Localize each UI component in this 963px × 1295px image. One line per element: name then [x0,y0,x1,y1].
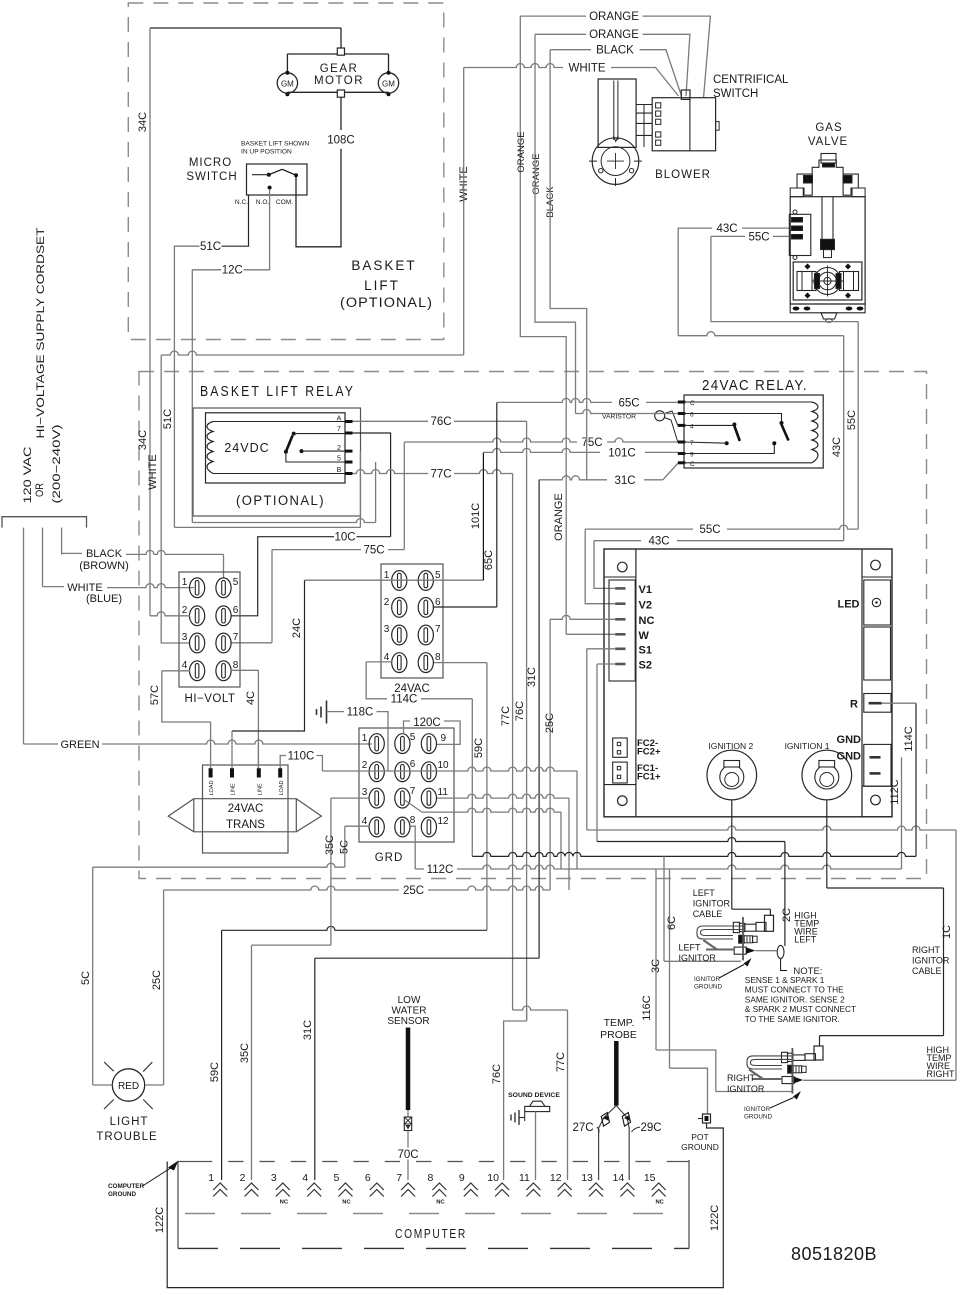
gas valve cross top [797,174,812,195]
gas valve knob [821,154,836,164]
svg-text:R: R [850,699,858,711]
svg-text:65C: 65C [483,550,495,570]
svg-text:122C: 122C [709,1205,721,1231]
svg-text:NC: NC [280,1200,289,1206]
wire 31C from relay bottom pin C [663,464,678,480]
svg-text:NC: NC [342,1200,351,1206]
svg-text:(200−240V): (200−240V) [51,425,63,504]
24VAC relay box [684,395,823,468]
svg-text:110C: 110C [288,751,315,763]
wire S1 from board to 1C sense right ignitor [587,648,615,650]
wire 57C from HI-VOLT pin 4 to transformer [162,670,190,672]
wire 34C vertical [149,28,151,616]
svg-text:1C: 1C [941,925,953,939]
wire 76C jog to computer pin 10 [504,1021,527,1180]
svg-text:MOTOR: MOTOR [314,75,364,87]
svg-text:IGNITOR: IGNITOR [693,899,731,909]
wire 35C from GRD pin 3 to computer pin 2 [330,798,332,945]
wire 5C from GRD pin 4 to light trouble lamp [345,825,370,827]
svg-text:7: 7 [410,786,416,797]
svg-text:(BROWN): (BROWN) [79,560,129,572]
svg-text:LEFT: LEFT [693,888,716,898]
HI-VOLT terminal 4 [190,661,205,681]
gear motor GM circle right [378,73,398,93]
wire 59C from 24VAC pin 8 down to computer pin 1 [434,662,487,664]
HI-VOLT terminal 2 [190,606,205,626]
svg-text:27C: 27C [572,1122,593,1134]
svg-text:C: C [690,400,695,407]
svg-text:N.C.: N.C. [235,199,248,206]
board mounting hole bottom left [618,796,628,806]
sound device speaker [525,1106,550,1111]
svg-text:COMPUTER: COMPUTER [395,1227,467,1241]
svg-text:LOAD: LOAD [209,780,215,795]
svg-text:CENTRIFICAL: CENTRIFICAL [713,74,789,86]
svg-text:6: 6 [233,605,239,616]
temp probe split wires [599,1106,617,1180]
wire 59C bus to left [222,926,487,930]
svg-text:59C: 59C [209,1062,221,1082]
svg-text:RED: RED [118,1081,139,1092]
svg-text:77C: 77C [555,1052,567,1072]
basket lift relay inner box [206,413,346,483]
wire WHITE BLUE to HI-VOLT pin 1 [43,586,65,588]
blower flange circle [592,138,639,185]
svg-text:MUST CONNECT TO THE: MUST CONNECT TO THE [745,985,844,995]
wire 108C from gear motor to micro switch COM [340,97,342,130]
svg-text:BASKET LIFT SHOWN: BASKET LIFT SHOWN [241,141,310,148]
gear motor GM circle left [277,73,297,93]
relay pin stubs [345,420,353,423]
svg-text:8: 8 [233,660,239,671]
temp probe bar [614,1041,619,1106]
svg-text:V2: V2 [639,600,652,612]
svg-text:ORANGE: ORANGE [589,11,639,23]
wire ORANGE 2 vertical from blower to 24VAC relay pin 6 [535,34,576,413]
GRD terminal 9 [421,734,436,754]
svg-text:BASKET LIFT RELAY: BASKET LIFT RELAY [200,384,355,400]
wire 101C horizontal to 24VAC relay pin 9 [483,448,600,452]
svg-text:6: 6 [365,1172,371,1184]
GRD terminal 3 [369,788,384,808]
svg-text:5: 5 [410,732,416,743]
wire 114C bus black [472,852,916,856]
transformer box [203,765,289,853]
svg-text:OR: OR [34,483,46,497]
svg-text:1: 1 [362,733,368,744]
svg-text:9: 9 [690,452,694,459]
svg-text:GROUND: GROUND [108,1191,136,1198]
svg-text:LEFT: LEFT [679,943,702,953]
svg-text:LEFT: LEFT [794,935,817,945]
GRD terminal 10 [421,762,436,782]
wire 43C vertical right [843,336,845,541]
board left connector box [609,580,635,681]
board empty cell [864,627,891,680]
right ignitor boot and cable [814,1046,823,1060]
wire 34C hump into HI-VOLT pin 2 [150,612,190,616]
svg-text:122C: 122C [154,1207,166,1233]
svg-text:& SPARK 2 MUST CONNECT: & SPARK 2 MUST CONNECT [745,1004,856,1014]
computer connector box [177,1162,179,1249]
svg-text:S1: S1 [639,645,652,657]
svg-text:112C: 112C [427,864,454,876]
low water sensor probe bar [406,1028,411,1111]
svg-text:6: 6 [435,597,441,608]
gas valve base [790,304,865,313]
svg-text:MICRO: MICRO [189,157,232,169]
svg-text:43C: 43C [648,536,669,548]
wire 76C long vertical [526,421,528,1021]
24VAC terminal 4 [392,653,407,673]
GRD terminal 2 [369,762,384,782]
board right column [861,549,863,817]
wire BLACK vertical from blower to 31C junction [550,50,587,480]
24VAC relay internal wires [684,401,812,403]
wire sound device to computer pin 11 [535,1112,537,1180]
svg-text:12: 12 [438,816,450,827]
wire 24C vertical [232,580,305,731]
wire 55C to board V2 [727,525,858,529]
svg-text:GREEN: GREEN [60,739,99,751]
svg-text:W: W [639,630,650,642]
GRD terminal 8 [395,817,410,837]
wire 116C to right ignitor ground [655,869,657,1050]
GRD terminal block box [359,728,454,842]
GRD terminal 6 [395,762,410,782]
svg-text:S2: S2 [639,660,652,672]
svg-text:5: 5 [233,577,239,588]
svg-text:108C: 108C [327,135,355,147]
wire 110C from transformer LOAD [280,756,286,769]
light trouble lamp RED [112,1069,144,1101]
wire R pin to 114C [882,702,917,704]
wire 120C bracket to GRD pins 5 and 9 [404,721,411,734]
gas valve side feet [790,188,803,197]
svg-text:10: 10 [487,1172,499,1184]
left ignitor spark plug [734,947,746,954]
left ignitor electrode hook [697,926,744,939]
low water sensor connector [407,1110,409,1117]
wire GRD pin 7 diagonal [404,800,422,813]
svg-text:HI−VOLTAGE SUPPLY CORDSET: HI−VOLTAGE SUPPLY CORDSET [35,227,47,438]
svg-text:31C: 31C [526,667,538,687]
relay coil 24VDC [207,422,213,474]
wire 75C upper-left segment and corner [271,549,273,551]
svg-text:7: 7 [396,1172,402,1184]
svg-text:WHITE: WHITE [568,63,605,75]
svg-text:SOUND DEVICE: SOUND DEVICE [508,1092,560,1099]
HI-VOLT terminal 7 [216,633,231,653]
svg-text:HI−VOLT: HI−VOLT [185,693,236,705]
wire 101C riser from 24VAC row to relay pin 9 [482,452,484,580]
svg-text:9: 9 [441,733,447,744]
svg-text:WHITE: WHITE [147,454,159,489]
svg-text:4C: 4C [245,691,257,705]
left ignitor mounting bracket [742,917,744,960]
wire label ORANGE top 1 [520,15,586,17]
wire label WHITE top [464,64,563,68]
gas valve side cylinders [797,272,816,291]
svg-text:POT: POT [691,1132,708,1142]
svg-text:3: 3 [384,624,390,635]
wire black-brown lead [61,528,63,554]
svg-text:12C: 12C [222,265,243,277]
right ignitor ceramic body [788,1065,794,1073]
svg-text:(OPTIONAL): (OPTIONAL) [236,493,325,508]
svg-text:116C: 116C [641,995,653,1021]
HI-VOLT terminal 3 [190,633,205,653]
svg-text:IGNITOR: IGNITOR [679,953,717,963]
wire 25C bus to lamp [428,886,550,890]
sound device ground symbol [510,1115,512,1121]
wire 77C relay pin B with crossings [353,470,429,474]
svg-text:70C: 70C [397,1149,418,1161]
svg-text:BLACK: BLACK [596,45,634,57]
svg-text:TRANS: TRANS [226,819,265,831]
svg-text:25C: 25C [151,970,163,990]
note leader [781,959,787,971]
24VAC relay contacts [732,423,736,427]
svg-text:IGNITOR: IGNITOR [694,976,721,983]
svg-text:WATER: WATER [392,1006,427,1017]
svg-text:114C: 114C [391,694,418,706]
svg-text:SWITCH: SWITCH [713,88,758,100]
board FC connector upper [613,738,628,757]
wire 51C from micro switch NC [222,195,249,246]
transformer capsule end verticals [193,799,195,832]
right ignitor electrode hook [747,1056,792,1069]
svg-text:2: 2 [337,445,341,452]
svg-text:2: 2 [240,1172,246,1184]
board mounting hole top right [871,560,881,570]
wire 122C from pot ground around bottom [167,1123,723,1288]
svg-text:10: 10 [438,760,450,771]
wire ORANGE to board W pin [566,633,615,635]
24VAC terminal 5 [418,571,433,591]
wire 31C bottom to computer pin 4 [315,957,539,959]
board pin stubs V1 V2 NC W S1 S2 [615,587,625,590]
wire 55C vertical right [857,322,859,529]
24VAC terminal 6 [418,598,433,618]
svg-text:IGNITOR: IGNITOR [744,1106,771,1113]
svg-text:14: 14 [613,1172,625,1184]
svg-text:75C: 75C [363,545,384,557]
board R cell [864,694,891,713]
svg-text:RIGHT: RIGHT [927,1069,956,1079]
GRD terminal 11 [421,788,436,808]
wire 3C to left ignitor ground [663,856,665,961]
svg-text:LINE: LINE [231,783,237,796]
svg-text:BASKET: BASKET [351,258,416,273]
centrifical switch connector tab [681,90,690,99]
svg-text:GRD: GRD [375,852,404,864]
svg-text:65C: 65C [618,398,639,410]
svg-text:29C: 29C [640,1122,661,1134]
GRD terminal 5 [395,734,410,754]
left ignitor ceramic body [739,935,745,943]
svg-text:43C: 43C [716,223,737,235]
wire sense right to 1C [803,1079,956,1081]
svg-text:2: 2 [182,605,188,616]
svg-text:(OPTIONAL): (OPTIONAL) [340,295,433,310]
svg-text:LIGHT: LIGHT [110,1116,149,1128]
temp probe connector diamonds [601,1113,609,1127]
svg-text:LOW: LOW [398,995,421,1006]
svg-text:8051820B: 8051820B [791,1244,877,1264]
svg-text:31C: 31C [302,1020,314,1040]
svg-text:6: 6 [410,759,416,770]
svg-text:2C: 2C [781,908,793,922]
svg-text:BLOWER: BLOWER [655,169,711,181]
svg-text:IGNITOR: IGNITOR [912,956,950,966]
wire GRD row 2 bus (110C to pins 2 6 10) [322,767,577,771]
svg-text:GND: GND [837,751,862,763]
24VAC terminal 1 [392,571,407,591]
wire white-blue lead [42,528,44,587]
wire NC 25C from board NC pin down to lamp [550,615,615,619]
svg-text:120 VAC: 120 VAC [22,446,34,503]
svg-text:3: 3 [271,1172,277,1184]
svg-text:PROBE: PROBE [600,1029,637,1041]
svg-text:ORANGE: ORANGE [531,153,542,194]
svg-text:77C: 77C [500,706,512,726]
svg-text:(BLUE): (BLUE) [86,593,122,605]
svg-text:25C: 25C [403,885,424,897]
svg-text:76C: 76C [514,701,526,721]
wire 34C feed from top-left to gear motor [150,27,341,29]
svg-text:GROUND: GROUND [694,984,722,991]
svg-text:LINE: LINE [257,783,263,796]
svg-text:ORANGE: ORANGE [516,131,527,172]
svg-text:34C: 34C [137,430,149,450]
svg-text:TEMP.: TEMP. [604,1017,635,1029]
svg-text:IN UP POSITION: IN UP POSITION [241,149,292,156]
wire green lead [23,528,25,744]
supply cordset bracket [2,517,87,528]
svg-text:COMPUTER: COMPUTER [108,1183,144,1190]
wire 77C jog to computer pin 12 [513,1006,568,1010]
svg-text:IGNITION 2: IGNITION 2 [708,741,753,751]
transformer lead wires up [210,722,212,768]
wire 75C from HI-VOLT pin 5 area to 24VAC relay pin 7 [272,549,361,551]
wire 55C from gas valve [773,235,789,237]
svg-text:2: 2 [362,760,368,771]
basket lift relay outer box [193,408,361,516]
svg-text:CABLE: CABLE [693,909,723,919]
svg-text:SAME IGNITOR. SENSE 2: SAME IGNITOR. SENSE 2 [745,994,845,1004]
svg-text:GM: GM [382,80,395,89]
lamp leads [93,1084,113,1086]
computer bottom dashed edge [178,1247,689,1249]
right ignitor ground arrow [793,1091,801,1100]
svg-text:RIGHT: RIGHT [912,945,941,955]
svg-text:15: 15 [644,1172,656,1184]
wire 43C to board V1 [677,540,844,542]
wire 70C to computer pin 7 [407,1131,409,1181]
svg-text:GND: GND [837,734,862,746]
svg-text:8: 8 [410,815,416,826]
svg-text:IGNITION 1: IGNITION 1 [785,741,830,751]
svg-text:55C: 55C [748,232,769,244]
svg-text:55C: 55C [846,410,858,430]
svg-text:34C: 34C [137,112,149,132]
svg-text:GEAR: GEAR [320,63,359,75]
gas valve body [790,197,865,304]
svg-text:77C: 77C [430,469,451,481]
svg-text:LIFT: LIFT [364,278,400,293]
svg-text:7: 7 [435,624,441,635]
wire 77C long vertical [512,474,514,1011]
svg-text:8: 8 [428,1172,434,1184]
svg-text:55C: 55C [699,524,720,536]
svg-text:12: 12 [550,1172,562,1184]
svg-text:35C: 35C [324,835,336,855]
svg-text:24VAC RELAY.: 24VAC RELAY. [702,378,808,394]
board left column [635,549,637,817]
gear motor GM assembly [337,48,344,55]
HI-VOLT terminal 8 [216,661,231,681]
svg-text:GM: GM [281,80,294,89]
svg-text:NC: NC [639,615,655,627]
wire BLACK BROWN to HI-VOLT pin 5 [62,552,82,554]
svg-text:B: B [337,467,342,474]
wire ORANGE 1 vertical from blower [520,16,566,634]
svg-text:76C: 76C [430,416,451,428]
wire 31C long vertical [538,480,540,958]
transformer lead terminals [209,768,213,777]
svg-text:6: 6 [690,412,694,419]
svg-text:51C: 51C [200,241,221,253]
svg-text:FC1+: FC1+ [637,772,661,783]
HI-VOLT terminal block box [179,572,240,687]
svg-text:76C: 76C [491,1064,503,1084]
24VAC relay pin stubs [678,401,686,404]
svg-text:2: 2 [384,597,390,608]
svg-text:ORANGE: ORANGE [589,29,639,41]
svg-text:4: 4 [182,660,188,671]
svg-text:SENSOR: SENSOR [387,1016,429,1027]
svg-text:A: A [337,416,342,423]
GRD terminal 1 [369,734,384,754]
svg-text:35C: 35C [239,1043,251,1063]
svg-text:GAS: GAS [815,122,842,134]
svg-text:TROUBLE: TROUBLE [96,1131,157,1143]
svg-text:VARISTOR: VARISTOR [602,414,636,421]
wire 4C from HI-VOLT pin 8 to transformer LINE [231,669,258,671]
svg-text:5C: 5C [339,840,351,854]
svg-text:1: 1 [384,570,390,581]
svg-text:24VDC: 24VDC [224,441,269,455]
svg-text:ORANGE: ORANGE [553,493,565,541]
wire 12C from micro switch NO [243,189,269,270]
micro switch body [247,164,308,195]
svg-text:59C: 59C [473,738,485,758]
wire 118C [327,711,345,713]
svg-text:101C: 101C [470,503,482,529]
svg-text:IGNITOR: IGNITOR [727,1084,765,1094]
svg-text:4: 4 [690,424,694,431]
label 2C oval and HIGH TEMP WIRE LEFT [777,945,784,958]
wire 43C from gas valve [742,227,789,229]
wire 114C from 24VAC pin 4 [366,661,392,663]
centrifical switch body [689,99,691,150]
svg-text:VALVE: VALVE [808,136,848,148]
svg-text:CABLE: CABLE [912,966,942,976]
wire 65C horizontal to 24VAC relay top pin C [497,398,612,402]
wire 51C into relay pin 2 [174,526,360,528]
svg-text:RIGHT: RIGHT [727,1073,756,1083]
